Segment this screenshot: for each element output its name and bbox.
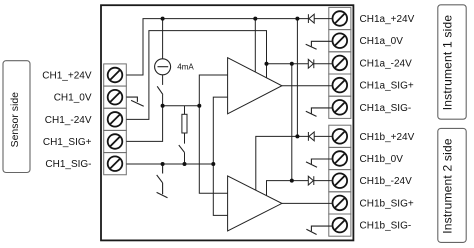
switch at CH1b_0V [306,159,333,167]
right terminal block CH1a (5 screw terminals) [329,7,351,118]
switch under resistor [179,145,185,153]
diode D4 (CH1b_-24V, cathode right) [308,176,314,185]
svg-text:CH1b_-24V: CH1b_-24V [360,176,413,187]
wire node row [163,105,200,107]
svg-text:Sensor side: Sensor side [9,92,21,148]
switch at CH1a_0V [306,41,333,49]
wire -24V row a [267,63,309,65]
device outline box [101,5,353,240]
svg-text:CH1_0V: CH1_0V [54,93,92,104]
svg-text:CH1_SIG-: CH1_SIG- [45,159,91,170]
wire riser to b -24V row [291,64,293,181]
svg-text:Instrument 1 side: Instrument 1 side [440,15,454,111]
svg-text:CH1_SIG+: CH1_SIG+ [43,137,92,148]
left terminal labels [42,71,92,171]
svg-text:4mA: 4mA [177,62,194,71]
wire op1 V+ supply [254,19,256,72]
svg-text:CH1_+24V: CH1_+24V [42,71,92,82]
test switch hanging below SIG- node [157,164,168,198]
svg-text:CH1b_0V: CH1b_0V [360,154,404,165]
svg-text:CH1a_0V: CH1a_0V [360,36,404,47]
right terminal block CH1b (5 screw terminals) [329,125,351,236]
wire -24V rail (W2) [126,31,266,120]
wire diode-a2 to CH1a_-24V terminal [314,63,333,65]
svg-text:Instrument 2 side: Instrument 2 side [440,138,454,234]
Instrument 1 side box [438,5,466,119]
wire +24V rail (W1) [126,19,308,75]
left terminal block CH1 (5 screw terminals) [104,64,127,175]
svg-text:CH1a_-24V: CH1a_-24V [360,58,413,69]
wire diode-b1 to CH1b_+24V terminal [314,135,332,137]
right terminal labels [360,14,415,232]
op-amp U2 [228,176,282,231]
Sensor side box [3,61,30,173]
svg-text:CH1a_SIG+: CH1a_SIG+ [360,81,414,92]
current source 4mA [155,59,171,75]
wire diode-b2 to CH1b_-24V terminal [314,180,333,182]
wire op1 + input riser [199,75,227,193]
switch at CH1b_SIG- [306,226,332,234]
wire switch to node, node down to SIG+ row [126,95,162,142]
wire diode-a1 to CH1a_+24V terminal [314,18,332,20]
svg-text:CH1_-24V: CH1_-24V [45,115,92,126]
diode D2 (CH1a_-24V, cathode right) [308,59,314,68]
wire current source to switch [162,75,164,85]
wire resistor bottom lead [184,133,186,144]
wire b -24V row with op2 V- supply [267,181,309,196]
op-amp U1 [228,58,282,114]
wire op1 - input riser [213,97,227,215]
wire b +24V row with op2 V+ supply [256,136,309,190]
svg-text:CH1b_SIG-: CH1b_SIG- [360,221,412,232]
wire riser to b +24V row [296,19,298,137]
svg-text:CH1b_+24V: CH1b_+24V [360,132,415,143]
resistor R [182,114,187,133]
wire current source chain top [162,19,164,59]
switch under current source [157,86,163,94]
svg-text:CH1a_SIG-: CH1a_SIG- [360,103,412,114]
Instrument 2 side box [438,128,466,242]
wire op2 output to CH1b_SIG+ [282,202,333,204]
wire op1 output to CH1a_SIG+ [282,85,333,87]
svg-text:CH1b_SIG+: CH1b_SIG+ [360,198,414,209]
svg-text:CH1a_+24V: CH1a_+24V [360,14,415,25]
wire SIG- row [126,163,213,165]
diode D3 (CH1b_+24V, cathode left) [308,132,314,141]
junction dots [161,17,300,183]
switch at CH1_0V [126,97,143,106]
wire resistor switch to SIG- row [184,153,186,164]
diode D1 (CH1a_+24V, cathode left) [308,14,314,23]
switch at CH1a_SIG- [306,108,333,117]
wire resistor top lead [184,106,186,115]
